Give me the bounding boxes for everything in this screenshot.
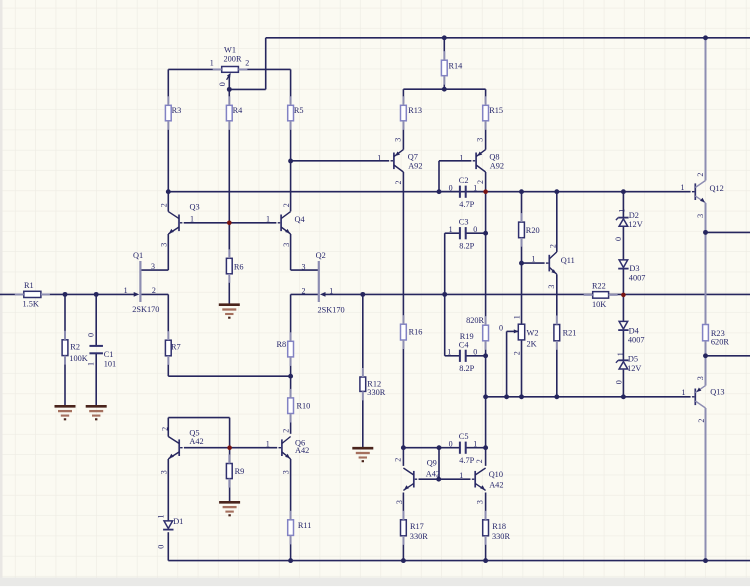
svg-text:330R: 330R (367, 388, 385, 397)
svg-text:1: 1 (460, 153, 464, 162)
svg-text:R6: R6 (234, 263, 244, 272)
svg-text:R9: R9 (235, 467, 245, 476)
svg-text:0: 0 (449, 439, 453, 448)
svg-text:8.2P: 8.2P (459, 241, 474, 250)
svg-text:R14: R14 (449, 61, 464, 70)
svg-text:1: 1 (377, 153, 381, 162)
svg-text:W2: W2 (527, 329, 539, 338)
svg-text:R17: R17 (410, 522, 424, 531)
svg-text:4007: 4007 (628, 335, 645, 344)
svg-text:1: 1 (513, 315, 522, 319)
svg-text:1: 1 (124, 286, 128, 295)
svg-text:1: 1 (473, 183, 477, 192)
svg-text:A92: A92 (408, 162, 422, 171)
svg-text:Q12: Q12 (710, 184, 724, 193)
svg-text:R16: R16 (409, 328, 423, 337)
svg-text:1: 1 (532, 255, 536, 264)
svg-text:12V: 12V (628, 220, 642, 229)
svg-text:2: 2 (697, 419, 706, 423)
svg-text:R20: R20 (526, 226, 540, 235)
svg-text:1: 1 (329, 286, 333, 295)
svg-text:Q11: Q11 (561, 256, 575, 265)
svg-text:820R: 820R (466, 316, 484, 325)
svg-text:1: 1 (449, 225, 453, 234)
svg-text:100K: 100K (69, 354, 87, 363)
svg-text:1.5K: 1.5K (23, 300, 39, 309)
svg-text:2K: 2K (527, 339, 537, 348)
svg-text:2: 2 (161, 427, 170, 431)
svg-text:2: 2 (393, 458, 402, 462)
svg-text:3: 3 (160, 243, 169, 247)
svg-text:0: 0 (499, 324, 503, 333)
svg-text:A42: A42 (426, 470, 440, 479)
svg-text:Q3: Q3 (190, 202, 200, 211)
svg-text:1: 1 (210, 58, 214, 67)
svg-text:R13: R13 (408, 106, 422, 115)
svg-text:Q7: Q7 (408, 152, 418, 161)
svg-text:0: 0 (218, 82, 227, 86)
svg-text:1: 1 (266, 214, 270, 223)
svg-text:2: 2 (394, 181, 403, 185)
svg-text:1: 1 (447, 347, 451, 356)
svg-text:A92: A92 (490, 162, 504, 171)
svg-text:2: 2 (245, 59, 249, 68)
svg-text:3: 3 (395, 500, 404, 504)
svg-text:R2: R2 (70, 342, 80, 351)
svg-text:3: 3 (696, 214, 705, 218)
svg-text:Q8: Q8 (489, 152, 499, 161)
svg-text:2: 2 (160, 203, 169, 207)
svg-text:R10: R10 (297, 401, 311, 410)
svg-text:D5: D5 (628, 355, 638, 364)
svg-text:4.7P: 4.7P (459, 200, 474, 209)
svg-text:C3: C3 (459, 218, 469, 227)
svg-text:D2: D2 (629, 211, 639, 220)
svg-text:200R: 200R (224, 54, 242, 63)
svg-text:R22: R22 (592, 282, 606, 291)
svg-text:0: 0 (449, 183, 453, 192)
svg-text:1: 1 (157, 515, 166, 519)
svg-text:R15: R15 (489, 106, 503, 115)
svg-text:Q13: Q13 (710, 387, 724, 396)
svg-text:R5: R5 (294, 106, 304, 115)
svg-text:2: 2 (302, 286, 306, 295)
svg-text:2: 2 (282, 203, 291, 207)
svg-text:1: 1 (617, 209, 626, 213)
svg-text:330R: 330R (492, 532, 510, 541)
svg-text:1: 1 (86, 362, 95, 366)
svg-text:3: 3 (281, 470, 290, 474)
svg-text:3: 3 (696, 376, 705, 380)
svg-text:2SK170: 2SK170 (318, 305, 345, 314)
svg-text:620R: 620R (711, 337, 729, 346)
svg-text:D3: D3 (629, 264, 639, 273)
svg-text:R7: R7 (171, 342, 181, 351)
svg-text:A42: A42 (489, 480, 503, 489)
svg-text:10K: 10K (592, 300, 606, 309)
svg-text:R4: R4 (233, 106, 244, 115)
svg-text:C5: C5 (459, 432, 469, 441)
svg-text:R1: R1 (24, 281, 34, 290)
svg-text:0: 0 (614, 237, 623, 241)
svg-text:Q2: Q2 (316, 251, 326, 260)
svg-text:3: 3 (547, 285, 556, 289)
svg-text:D4: D4 (629, 327, 640, 336)
svg-text:0: 0 (86, 333, 95, 337)
svg-text:2: 2 (281, 429, 290, 433)
svg-text:1: 1 (616, 352, 625, 356)
svg-text:Q4: Q4 (295, 215, 306, 224)
svg-text:3: 3 (476, 138, 485, 142)
svg-text:A42: A42 (295, 446, 309, 455)
svg-text:1: 1 (473, 439, 477, 448)
svg-text:2: 2 (476, 180, 485, 184)
svg-text:2: 2 (152, 286, 156, 295)
svg-text:3: 3 (393, 138, 402, 142)
svg-text:2: 2 (548, 244, 557, 248)
svg-text:101: 101 (104, 360, 116, 369)
svg-text:D1: D1 (173, 517, 183, 526)
svg-text:12V: 12V (627, 364, 641, 373)
svg-text:0: 0 (473, 225, 477, 234)
svg-text:R8: R8 (277, 340, 287, 349)
svg-text:1: 1 (266, 439, 270, 448)
svg-text:2SK170: 2SK170 (132, 305, 159, 314)
svg-text:2: 2 (513, 351, 522, 355)
svg-text:R3: R3 (172, 106, 182, 115)
svg-text:3: 3 (160, 470, 169, 474)
svg-text:4007: 4007 (629, 274, 646, 283)
svg-text:3: 3 (302, 262, 306, 271)
svg-text:1: 1 (681, 183, 685, 192)
svg-text:R21: R21 (563, 329, 577, 338)
svg-text:Q1: Q1 (133, 251, 143, 260)
svg-text:1: 1 (190, 214, 194, 223)
svg-text:C1: C1 (104, 350, 114, 359)
svg-text:3: 3 (282, 243, 291, 247)
svg-text:1: 1 (682, 388, 686, 397)
svg-text:W1: W1 (224, 45, 236, 54)
svg-text:C2: C2 (459, 176, 469, 185)
svg-text:0: 0 (615, 380, 624, 384)
svg-text:3: 3 (151, 262, 155, 271)
svg-text:0: 0 (473, 347, 477, 356)
svg-text:Q9: Q9 (427, 459, 437, 468)
svg-text:A42: A42 (189, 437, 203, 446)
svg-text:3: 3 (476, 500, 485, 504)
svg-text:C4: C4 (459, 340, 470, 349)
svg-text:0: 0 (157, 545, 166, 549)
svg-text:330R: 330R (410, 532, 428, 541)
svg-text:8.2P: 8.2P (459, 364, 474, 373)
svg-text:R11: R11 (298, 521, 312, 530)
svg-text:2: 2 (475, 459, 484, 463)
svg-text:Q10: Q10 (489, 470, 503, 479)
svg-text:1: 1 (459, 471, 463, 480)
svg-text:2: 2 (696, 173, 705, 177)
svg-text:4.7P: 4.7P (459, 456, 474, 465)
svg-text:R18: R18 (492, 522, 506, 531)
